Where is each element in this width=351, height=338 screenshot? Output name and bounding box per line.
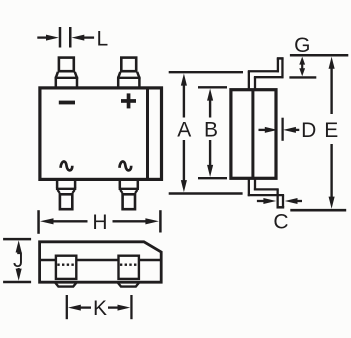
svg-text:H: H: [92, 211, 107, 234]
svg-text:G: G: [294, 34, 310, 57]
svg-text:K: K: [93, 297, 107, 320]
svg-text:L: L: [96, 28, 108, 51]
svg-text:E: E: [324, 119, 338, 142]
svg-text:B: B: [204, 118, 218, 141]
svg-text:D: D: [301, 119, 316, 142]
svg-text:C: C: [273, 210, 288, 233]
svg-text:J: J: [13, 249, 24, 272]
svg-text:A: A: [177, 118, 191, 141]
